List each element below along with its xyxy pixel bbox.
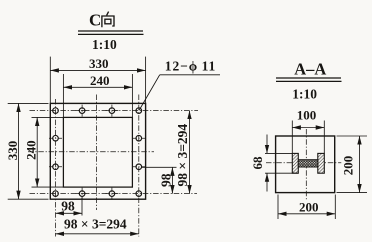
title underline double <box>78 30 143 32</box>
dimension 98 bottom <box>56 198 83 216</box>
dimension 200 bottom <box>278 195 335 220</box>
dimension 330 left <box>8 103 49 199</box>
svg-text:240: 240 <box>24 140 39 160</box>
centerline vertical right hole column <box>138 95 140 237</box>
svg-text:A–A: A–A <box>294 60 326 79</box>
centerline horizontal bottom hole row <box>30 193 198 195</box>
dimension 240 left <box>32 117 64 187</box>
dimension 68 left <box>265 135 298 192</box>
svg-text:98: 98 <box>158 173 173 187</box>
dimension 330 top <box>50 57 145 103</box>
title underline double <box>276 77 341 79</box>
svg-text:98 × 3=294: 98 × 3=294 <box>64 216 127 231</box>
I-beam web (cross hatched) <box>298 160 318 167</box>
svg-text:1:10: 1:10 <box>92 37 117 52</box>
svg-text:200: 200 <box>341 156 356 176</box>
short centerline ticks through middle holes <box>49 105 145 200</box>
svg-text:200: 200 <box>299 199 319 214</box>
dimension 100 top <box>292 121 324 154</box>
I-beam left flange (hatched) <box>292 153 298 173</box>
svg-text:100: 100 <box>297 108 317 123</box>
svg-text:330: 330 <box>89 56 109 71</box>
dimension 98x3=294 right <box>189 111 191 194</box>
svg-text:98: 98 <box>61 198 75 213</box>
dimension 200 right <box>337 136 368 193</box>
svg-text:1:10: 1:10 <box>292 86 317 101</box>
svg-text:240: 240 <box>90 73 110 88</box>
svg-text:98 × 3=294: 98 × 3=294 <box>175 124 190 187</box>
svg-text:68: 68 <box>250 156 265 170</box>
title character 向 (drawn strokes) <box>102 12 114 28</box>
centerline vertical <box>305 129 307 200</box>
inner square opening <box>63 117 132 187</box>
dimension 240 top <box>63 74 132 117</box>
I-beam right flange (hatched) <box>318 153 325 173</box>
centerline horizontal top hole row <box>30 110 199 112</box>
centerline horizontal middle <box>28 151 154 153</box>
bolt holes 12-phi11 <box>53 108 142 197</box>
column outline square <box>276 136 335 193</box>
svg-text:330: 330 <box>5 141 20 161</box>
dimension 98x3=294 bottom <box>56 233 139 235</box>
dimension 98 right <box>141 167 177 193</box>
outer square of flange plate <box>50 103 145 199</box>
centerline horizontal <box>266 162 341 164</box>
svg-text:C: C <box>89 11 101 30</box>
centerline vertical middle <box>96 95 98 211</box>
svg-text:12−ϕ 11: 12−ϕ 11 <box>165 58 216 73</box>
leader 12-phi11 <box>139 75 220 110</box>
centerline vertical left hole column <box>55 99 57 237</box>
